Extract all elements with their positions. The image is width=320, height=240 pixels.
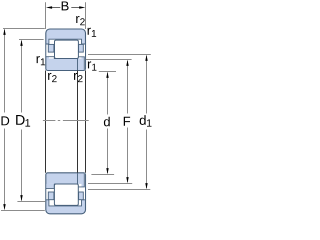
cage square right (top section) xyxy=(79,44,84,52)
D arrowheads xyxy=(3,29,5,35)
roller (top section) xyxy=(55,40,79,58)
centerline (axis) xyxy=(43,120,89,122)
labels xyxy=(1,1,151,126)
loose flange ring (bottom section) xyxy=(78,173,85,187)
D1 extension line top xyxy=(19,39,44,41)
left face line lower xyxy=(45,71,47,173)
F arrowheads xyxy=(126,60,128,66)
d1 arrowheads xyxy=(145,55,147,61)
label r1_topright xyxy=(88,28,97,37)
cavity whites of top section xyxy=(49,39,82,58)
label r1_rightmid xyxy=(88,61,97,70)
d1 dimension line xyxy=(146,56,148,188)
D dimension line xyxy=(4,30,6,209)
cavity whites of bottom section xyxy=(49,184,82,206)
F dimension line xyxy=(127,61,129,182)
d dimension line xyxy=(107,73,109,173)
label d1 xyxy=(140,115,152,126)
label B xyxy=(62,1,69,10)
label d xyxy=(104,117,110,127)
cage square right (bottom section) xyxy=(79,192,84,200)
bottom half bearing section silhouette xyxy=(46,173,86,214)
label r2_botmid xyxy=(74,73,83,82)
D extension line top xyxy=(3,28,45,30)
D extension line bottom xyxy=(1,210,45,212)
d extension line bottom xyxy=(91,174,114,176)
D1 extension line bottom xyxy=(17,201,45,203)
right B extension tick xyxy=(85,2,87,29)
d arrowheads xyxy=(106,72,108,78)
right face line lower xyxy=(85,71,87,173)
D1 dimension line xyxy=(21,41,23,201)
left B extension tick xyxy=(45,2,47,29)
top half bearing section silhouette xyxy=(46,29,86,71)
label D1 xyxy=(16,115,30,127)
loose flange ring (top section) xyxy=(78,57,85,71)
F extension line top xyxy=(86,59,132,61)
cage square left (bottom section) xyxy=(48,192,54,200)
inner ring flange top + raceway (top section) xyxy=(46,57,78,59)
D1 arrowheads xyxy=(20,40,22,46)
label r1_left xyxy=(37,56,46,65)
cage square left (top section) xyxy=(48,44,54,52)
d1 extension line bottom xyxy=(88,189,150,191)
roller (bottom section) xyxy=(54,184,78,205)
label D xyxy=(1,116,9,125)
d extension line top xyxy=(99,71,116,73)
loose ring face line between sections xyxy=(77,71,79,173)
label F xyxy=(124,117,130,126)
outer ring inner profile (bottom section) xyxy=(46,200,86,206)
B dimension line xyxy=(51,7,80,9)
d1 extension line top xyxy=(88,54,151,56)
F extension line bottom xyxy=(88,183,132,185)
label r2_botleft xyxy=(48,73,57,82)
label r2_top xyxy=(76,16,85,25)
inner ring left flange (bottom section) xyxy=(46,184,54,189)
outer ring inner profile (top section) xyxy=(46,39,86,44)
B arrowheads xyxy=(46,6,52,8)
